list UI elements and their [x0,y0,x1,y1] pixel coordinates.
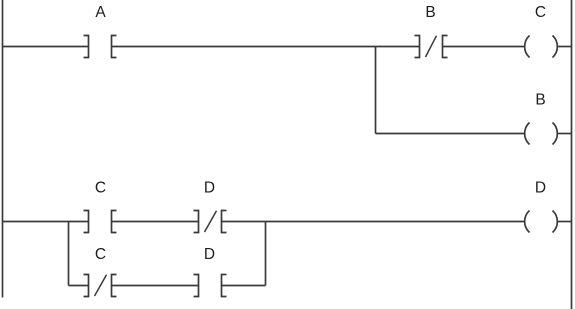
contact B (NC) [415,36,448,58]
svg-text:B: B [535,92,545,109]
wire parallel branch right [222,285,266,287]
wire parallel branch left [69,285,89,287]
contact A (NO) [84,36,117,58]
contact D (NO, branch) [194,275,227,297]
svg-text:C: C [95,246,106,263]
wire branch down left of parallel branch [68,222,70,286]
left power rail [2,0,4,298]
svg-text:C: C [535,4,546,21]
coil C [525,36,558,58]
wire branch up right of parallel branch [265,222,267,286]
wire rung1 left [3,46,89,48]
svg-text:D: D [535,180,546,197]
svg-text:C: C [95,180,106,197]
svg-text:D: D [204,246,215,263]
wire branch down to coil B rung [375,47,377,134]
coil D [525,211,558,233]
wire rung2 middle [112,221,199,223]
svg-text:B: B [425,4,435,21]
contact C (NC, branch) [84,275,117,297]
coil B [525,123,558,145]
wire rung1 right [443,46,525,48]
svg-text:D: D [204,180,215,197]
wire rung2 right [222,221,525,223]
wire parallel branch middle [112,285,199,287]
wire rung2 left [3,221,89,223]
wire coil-B rung [376,133,525,135]
contact C (NO) [84,211,117,233]
wire coil-B rung to right rail [558,133,572,135]
wire rung2 to right rail [558,221,572,223]
wire rung1 to right rail [558,46,572,48]
svg-text:A: A [95,4,106,21]
contact D (NC) [194,211,227,233]
right power rail [571,0,573,309]
wire rung1 middle [112,46,420,48]
